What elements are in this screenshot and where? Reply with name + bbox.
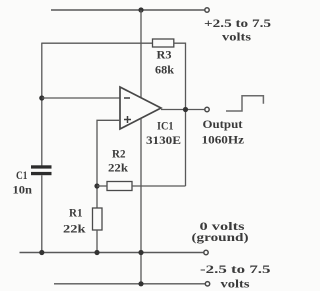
- node C1 ground junction: [39, 250, 44, 255]
- node R1 ground junction: [94, 250, 99, 255]
- svg-text:R2: R2: [112, 147, 126, 161]
- terminal +2.5 to 7.5 volts: [205, 8, 209, 12]
- svg-text:Output: Output: [203, 117, 243, 131]
- node inverting input junction: [39, 95, 44, 100]
- svg-text:C1: C1: [16, 168, 28, 182]
- terminal 0 volts: [204, 250, 208, 254]
- capacitor C1: [31, 165, 52, 175]
- node R1 R2 junction: [94, 183, 99, 188]
- wire feedback left vertical: [41, 43, 43, 166]
- svg-text:1060Hz: 1060Hz: [202, 133, 245, 147]
- svg-text:10n: 10n: [13, 183, 33, 197]
- svg-text:22k: 22k: [63, 222, 86, 236]
- svg-text:-2.5 to 7.5: -2.5 to 7.5: [200, 262, 271, 276]
- node output junction: [183, 107, 188, 112]
- resistor R1: [93, 208, 103, 230]
- wire top positive supply rail: [51, 9, 205, 11]
- terminal output: [205, 107, 209, 111]
- node V- rail crossing junction: [138, 250, 143, 255]
- op-amp IC1: [120, 87, 161, 129]
- svg-text:(ground): (ground): [192, 230, 249, 244]
- wire C1 bottom to ground rail: [41, 175, 43, 252]
- resistor R3: [153, 39, 174, 47]
- wire ground rail 0 volts: [20, 252, 204, 254]
- square wave output symbol: [226, 96, 263, 111]
- wire op-amp V+ pin: [140, 10, 142, 98]
- svg-text:68k: 68k: [155, 63, 174, 77]
- svg-text:R3: R3: [157, 48, 172, 62]
- wire feedback top horizontal to R3: [42, 42, 153, 44]
- wire R1 bottom: [96, 230, 98, 253]
- wire R2 right to output node: [132, 185, 186, 187]
- svg-text:3130E: 3130E: [146, 133, 181, 147]
- svg-text:+2.5 to 7.5: +2.5 to 7.5: [204, 16, 271, 30]
- svg-text:R1: R1: [69, 206, 83, 220]
- terminal -2.5 to 7.5 volts: [205, 282, 209, 286]
- wire non-inverting input: [97, 120, 120, 208]
- node V- negative rail junction: [138, 281, 143, 286]
- wire R3 right to output node vertical: [174, 43, 186, 186]
- svg-text:IC1: IC1: [157, 119, 174, 133]
- svg-text:volts: volts: [222, 30, 251, 44]
- wire negative supply rail: [54, 283, 205, 285]
- resistor R2: [107, 182, 132, 191]
- wire op-amp V- pin down: [140, 119, 142, 284]
- svg-text:volts: volts: [221, 277, 250, 291]
- wire output: [161, 109, 205, 111]
- wire R2 left: [97, 185, 107, 187]
- node junction V+: [138, 7, 143, 12]
- wire inverting input: [42, 97, 120, 99]
- svg-text:22k: 22k: [108, 161, 128, 175]
